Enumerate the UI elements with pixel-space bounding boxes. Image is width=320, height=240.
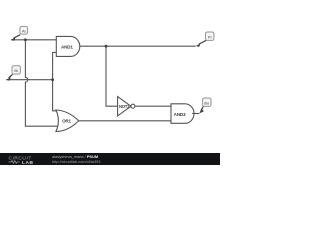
CircuitLab logo bbox=[7, 155, 37, 164]
node junction on Bi wire bbox=[51, 78, 54, 81]
pin flag Bi bbox=[6, 66, 20, 81]
and-gate AND1 bbox=[56, 36, 79, 56]
svg-text:Bi: Bi bbox=[14, 68, 18, 73]
pin flag Ai bbox=[11, 26, 28, 41]
node junction on AND1 output wire bbox=[105, 45, 108, 48]
watermark text line 2 bbox=[52, 159, 100, 164]
pin flag Pi bbox=[196, 32, 214, 47]
wire AND1 output to Pi bbox=[80, 45, 196, 47]
wire Bi branch up to AND1 input2 bbox=[53, 52, 57, 79]
node junction on Ai wire bbox=[24, 38, 27, 41]
watermark text line 1 bbox=[52, 154, 98, 159]
svg-text:AND1: AND1 bbox=[61, 45, 73, 50]
wire Ai branch down to OR1 lower input (with hop over Bi wire) bbox=[25, 40, 58, 126]
svg-text:Bo: Bo bbox=[204, 100, 210, 105]
svg-text:OR1: OR1 bbox=[62, 119, 71, 124]
svg-text:AND3: AND3 bbox=[174, 112, 186, 117]
svg-text:Pi: Pi bbox=[208, 34, 212, 39]
and-gate AND3 bbox=[171, 104, 194, 124]
wire Bi branch down to OR1 upper input bbox=[53, 80, 57, 111]
wire Ai to AND1 input1 bbox=[11, 39, 56, 41]
wire NOT1 output to AND3 input1 bbox=[135, 105, 171, 107]
svg-text:Ai: Ai bbox=[22, 28, 26, 33]
wire AND3 output to Bo bbox=[192, 113, 199, 115]
not-gate NOT1 bbox=[118, 97, 135, 116]
svg-text:NOT1: NOT1 bbox=[119, 104, 130, 109]
pin flag Bo bbox=[199, 98, 211, 113]
svg-text:LAB: LAB bbox=[22, 160, 34, 164]
wire OR1 output to AND3 input2 bbox=[79, 120, 171, 122]
or-gate OR1 bbox=[56, 110, 79, 132]
wire Bi to junction bbox=[6, 79, 52, 81]
wire AND1 output branch down to NOT1 input bbox=[106, 46, 118, 106]
